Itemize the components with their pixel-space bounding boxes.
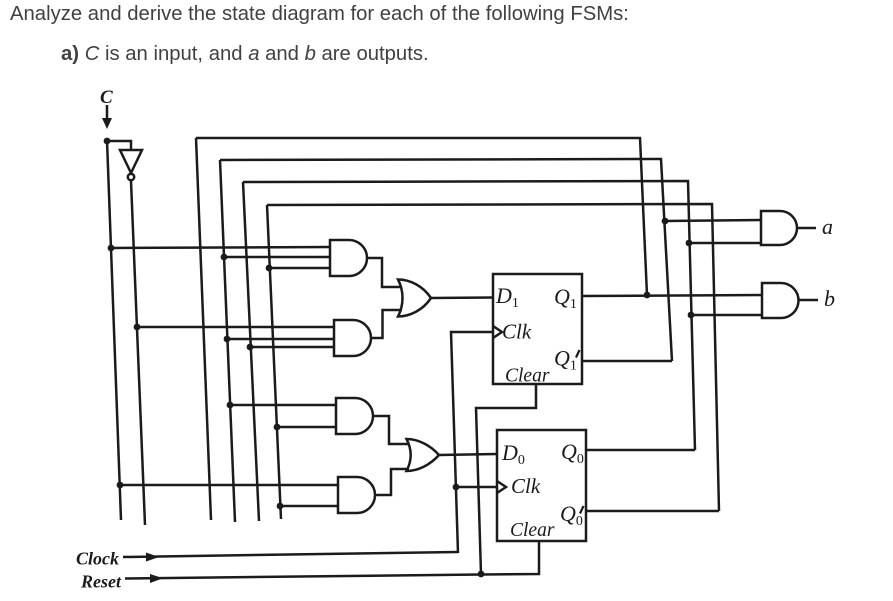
svg-text:b: b [824, 286, 835, 311]
svg-text:Q0: Q0 [561, 439, 584, 467]
svg-text:Reset: Reset [80, 572, 122, 592]
svg-text:Q1: Q1 [554, 284, 577, 312]
svg-text:Clock: Clock [76, 549, 119, 569]
svg-text:a: a [822, 214, 833, 239]
svg-text:Clk: Clk [502, 320, 532, 344]
svg-text:D0: D0 [501, 440, 525, 468]
svg-text:Clear: Clear [505, 366, 550, 387]
svg-text:Clk: Clk [511, 474, 541, 498]
svg-text:Q0: Q0 [560, 501, 583, 529]
svg-text:C: C [100, 87, 113, 108]
svg-text:Clear: Clear [510, 520, 555, 541]
svg-text:Q1: Q1 [554, 346, 577, 374]
svg-text:D1: D1 [495, 283, 519, 311]
